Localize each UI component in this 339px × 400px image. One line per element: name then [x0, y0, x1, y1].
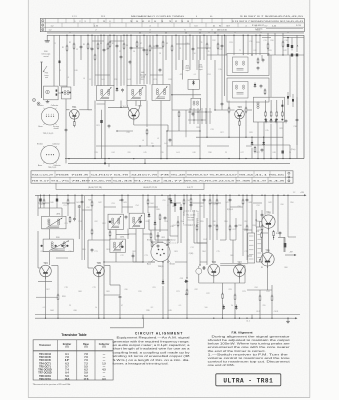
wires, verticals mid IF [139, 35, 141, 84]
transistor TR6 (driver) [208, 264, 220, 276]
band vertical separators [54, 171, 56, 177]
diode D13 on mid bus [263, 141, 265, 143]
detector cluster verticals [189, 108, 191, 124]
resistor R14 [282, 41, 284, 43]
capacitor C23 [164, 216, 166, 217]
bottom bus arrow right [292, 317, 297, 319]
junction dots extras bottom [43, 195, 44, 196]
TR4 bias chain link [36, 296, 58, 298]
diode D12 on mid bus [251, 141, 253, 143]
TR4 base feed wire [38, 267, 40, 269]
diode D10 [223, 305, 225, 307]
transistor base diagram circle (bottom centre) [151, 242, 170, 261]
capacitor C29 [202, 267, 203, 269]
Transistor Table outer box [33, 340, 113, 380]
ULTRA - TR81 model box [216, 374, 281, 386]
detector output wires [148, 219, 150, 230]
capacitor C10 inside T5 [262, 58, 264, 59]
mid trunk verticals lower [103, 195, 105, 314]
F.M. I.F. transformer T6 (screened, lower) [227, 78, 269, 102]
band sub-row centred box [56, 183, 204, 189]
extra small components bottom schematic [43, 199, 45, 201]
resistor R5 [94, 54, 96, 56]
right rail verticals [296, 35, 298, 52]
ground at bottom bus right [287, 318, 289, 319]
band cell separator ticks [57, 18, 59, 23]
resistor R9 [171, 45, 173, 47]
capacitor C1 [80, 45, 82, 46]
output resistor R31 [271, 295, 273, 297]
wire tail right [289, 145, 291, 159]
driver transformer T10 secondary [256, 227, 262, 262]
horizontal link y283 drivers [199, 282, 245, 284]
junction dots extras top [91, 35, 92, 36]
wire at 167 down [166, 131, 168, 159]
resistor R23 [159, 214, 161, 216]
resistor R2 [73, 43, 75, 45]
resistor R29 [273, 230, 275, 232]
resistor R10 [206, 43, 208, 45]
ratio detector coils [257, 102, 259, 104]
right bus segment y55 [207, 54, 227, 56]
transistor TR8 (output) [262, 215, 275, 228]
bottom distribution bus (lower) [35, 317, 292, 319]
junction dots bottom bus [68, 158, 69, 159]
tuner ground [47, 100, 49, 102]
transistor TR9 (output) [261, 253, 274, 266]
transistor TR4 [40, 265, 52, 277]
loudspeaker coupling capacitor C32 (dark) [284, 243, 287, 247]
resistor R28 [260, 232, 262, 234]
alignment table band (top) [40, 18, 304, 31]
diode D6 [148, 213, 150, 215]
extra small components top schematic [97, 43, 99, 45]
dark core blob T9 [121, 246, 123, 248]
wires below detector [257, 122, 259, 145]
bottom bus second line [68, 162, 290, 164]
transistor TR5 (A.F. amplifier) [93, 265, 104, 276]
bottom-left tail wires [87, 86, 89, 110]
TR5 collector wire [105, 265, 111, 267]
wire left mid links [38, 281, 52, 283]
transistor TR1 [69, 109, 79, 119]
TR9 leads [267, 266, 269, 290]
component location band (middle) [31, 171, 293, 183]
wire trunks right-mid [186, 195, 188, 243]
page frame bottom edge [28, 397, 310, 399]
horizontal link y131 [167, 130, 200, 132]
wire TR1 collector rail [79, 109, 92, 111]
wire grid extras, bottom schematic [43, 195, 45, 208]
volume control VR1 [167, 195, 169, 240]
output resistor R30 [259, 295, 261, 297]
capacitor C12 [270, 119, 272, 120]
capacitor C3 [65, 128, 67, 129]
wires below AM det [172, 109, 191, 111]
dark component in detector [281, 105, 283, 107]
diode D2 in detector box [193, 80, 195, 82]
bottom bus junction dots [45, 318, 46, 319]
resistor R21 [69, 216, 71, 218]
ratio detector internal resistors [265, 100, 267, 112]
left trunk verticals lower [37, 195, 39, 216]
ferrite box terminals [61, 92, 63, 94]
A.M./F.M. I.F. transformer T2 [97, 86, 115, 101]
wires right-mid verticals [221, 35, 223, 55]
horizontal link y94.8 [171, 94, 201, 96]
diode D8 (thermistor leg) [162, 280, 164, 282]
diode D4 [265, 118, 267, 120]
resistor R15 [254, 146, 256, 148]
capacitor C28 (C15 label) [184, 280, 185, 282]
wire trunk verticals, tuner section [53, 35, 55, 86]
I.F. amplifier bottom bus [65, 158, 304, 160]
capacitor C25 [119, 295, 121, 296]
wire from tuner to TR1 [58, 92, 61, 94]
short horizontal jogs, bottom schematic [38, 202, 50, 204]
misc small caps top mid [159, 68, 161, 69]
capacitor C9 [169, 138, 171, 139]
H.T. bus of lower section [35, 194, 300, 196]
H.T. supply bus (top, double line) [47, 32, 304, 34]
resistor R6 [107, 43, 109, 45]
band row marker circles [42, 20, 44, 22]
TR8 base wire [258, 222, 260, 227]
-9V terminal arrow [285, 254, 296, 256]
coupling wires into driver transformer [220, 263, 248, 265]
TR3 emitter resistor R12 [239, 120, 241, 122]
wire T5-T6 feed [242, 35, 244, 55]
output stage rail left [251, 195, 253, 233]
electrolytic C27 [180, 207, 182, 210]
TR4 collector load wire [51, 265, 58, 267]
capacitor C5 [122, 88, 124, 89]
diode D11 [235, 305, 237, 307]
resistor R32 inside T5 [257, 58, 259, 60]
capacitor C11 inside T6 [260, 84, 262, 85]
bottom distribution bus (upper) [35, 314, 300, 316]
dark core blob T8 [139, 221, 141, 223]
F.M. I.F. transformer T8 (lower row) [129, 213, 144, 228]
junction dots IF [100, 35, 101, 36]
resistor R22 [57, 294, 59, 296]
TR2 collector/emitter top links [127, 105, 129, 111]
TR8 emitter-collector chain [267, 229, 269, 252]
right-side H.T. wiring [267, 33, 269, 55]
capacitor C4 [120, 55, 122, 56]
capacitor C6 [192, 47, 194, 48]
short horizontal jogs, top schematic [92, 40, 104, 42]
page frame right edge [309, 0, 311, 398]
transistor TR2 [128, 108, 139, 119]
on/off switch dashed link [168, 242, 178, 244]
ratio detector box [253, 97, 284, 122]
transistor TR7 (driver 2) [234, 265, 246, 277]
A.M. I.F. transformer T9 [110, 239, 125, 252]
bus junction dots lower [40, 195, 41, 196]
output vertical rails [283, 237, 285, 252]
chassis connection at bus left end [46, 35, 48, 41]
A.M. detector block wires [171, 60, 173, 110]
transistor base diagram circle (lower) [41, 146, 59, 164]
output coupling wires [272, 195, 274, 214]
capacitor C13 [285, 119, 287, 120]
tuner trimmer circle [46, 90, 50, 94]
right bus segment y37.5 [283, 37, 304, 39]
wire forest upper right of lower section [154, 195, 156, 230]
dark diodes in F.M. box row [41, 245, 43, 247]
diode D5 [275, 118, 277, 120]
vertical drops bus to bus [45, 315, 47, 319]
diode D9 [170, 199, 172, 201]
decoupling cluster right of ratio detector [287, 96, 289, 99]
resistor R27 [234, 294, 236, 296]
wire pair to output stage (bottom-left) [81, 196, 83, 260]
TR2 base feed wire [108, 106, 129, 108]
I.F. transformer T3 [127, 86, 146, 101]
A.M. oscillator coil box (bottom left) [42, 216, 66, 229]
P.U. socket box (dashed) [184, 211, 199, 225]
I.F. transformer T4 [152, 85, 170, 101]
horizontal link y145 right [252, 144, 290, 146]
F.M. discriminator coil box (bottom left) [43, 239, 73, 252]
diode D3 inside T6 [254, 83, 256, 85]
dark electrolytic C18 on bus [39, 199, 41, 202]
resistor R13 [267, 43, 269, 45]
speaker tail wire [142, 318, 144, 328]
mid distribution bus y137 [196, 136, 283, 138]
link output emitters [253, 289, 272, 291]
capacitor C8 [192, 112, 194, 113]
electrolytic C26 [174, 203, 176, 206]
telescopic aerial element [41, 62, 43, 98]
resistor R8 [146, 49, 148, 51]
F.M. I.F. transformer T7 (lower row) [108, 214, 123, 229]
Transistor Table header rules [33, 350, 113, 352]
tone control VR2 [186, 283, 188, 290]
resistor R1 [66, 45, 68, 47]
A.M. detector box [188, 80, 199, 90]
horizontal distribution wires mid lower [104, 261, 155, 263]
dark core blob T7 [109, 221, 111, 223]
wire right of output [277, 195, 279, 232]
capacitor C22 [125, 215, 127, 216]
A.M. det output coil box [191, 98, 201, 110]
transistor TR3 [235, 109, 245, 119]
band to bus connector stubs [69, 32, 71, 33]
+9V terminal arrow [300, 194, 306, 196]
capacitor C24 [157, 244, 159, 245]
driver transformer T10 primary [248, 233, 255, 263]
junction dots top-left [66, 35, 67, 36]
TR5 base coupling wire [88, 267, 93, 269]
resistor R26 [222, 293, 224, 295]
dark electrolytic C17 [100, 120, 102, 123]
dark decoupling capacitors right [291, 54, 293, 57]
TR2 emitter path wire [133, 119, 135, 125]
capacitor blob on tuner feed [59, 61, 61, 64]
wire trunks right verticals [212, 195, 214, 263]
resistor R11 [178, 111, 180, 113]
page frame left edge [27, 0, 29, 398]
ferrite rod aerial box [61, 87, 71, 99]
junction dots upper mid [139, 32, 140, 33]
decoupling capacitor C16 blob [104, 159, 106, 164]
resistor R3 [87, 43, 89, 45]
wire trunk verticals, mixer/IF section [94, 35, 96, 86]
ground symbol on bottom bus [144, 159, 146, 164]
diode D7 [154, 221, 156, 223]
wire verticals below tuner [65, 110, 67, 159]
capacitor C20 [74, 217, 76, 218]
TR1 emitter resistor R4 [73, 120, 75, 122]
dark electrolytic C19 on bus [56, 199, 58, 202]
tuner output parts [56, 90, 58, 92]
transistor base diagram circle (upper) [41, 108, 58, 125]
wires centre-bottom [162, 262, 164, 281]
aerial input sockets [33, 99, 36, 102]
capacitor C21 [78, 205, 80, 206]
mid bus junctions [206, 137, 207, 138]
wire below detector box [192, 89, 194, 98]
band right cap circles [285, 171, 287, 183]
Transistor Table column rules [56, 340, 58, 380]
junction dots [214, 32, 215, 33]
horizontal links left lower [38, 207, 62, 209]
F.M. tuner unit box [44, 86, 59, 100]
wire TR3 base link [215, 109, 235, 111]
F.M. I.F. transformer T5 (screened, upper) [227, 54, 269, 76]
wires below IF row [104, 101, 106, 159]
capacitor C14 [261, 148, 263, 149]
resistor R25 [151, 241, 153, 243]
diode D1 [116, 87, 118, 89]
driver thermistor circle [196, 268, 202, 274]
dark capacitor C15 [282, 151, 284, 154]
wire grid extras, top schematic [91, 35, 93, 86]
